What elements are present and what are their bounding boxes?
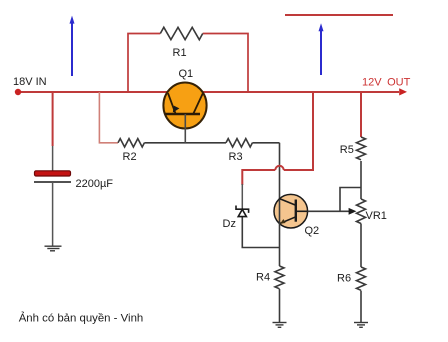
svg-text:R1: R1	[173, 47, 187, 59]
svg-text:Ảnh có bản quyền - Vinh: Ảnh có bản quyền - Vinh	[19, 312, 144, 325]
svg-text:Q1: Q1	[179, 68, 194, 80]
svg-text:Dz: Dz	[223, 218, 236, 230]
svg-text:VR1: VR1	[366, 210, 387, 222]
svg-text:18V IN: 18V IN	[13, 76, 47, 88]
svg-text:12V OUT: 12V OUT	[362, 77, 411, 89]
svg-text:R5: R5	[340, 144, 354, 156]
svg-text:R6: R6	[337, 273, 351, 285]
svg-text:R3: R3	[229, 151, 243, 163]
svg-text:R4: R4	[256, 272, 270, 284]
svg-text:2200µF: 2200µF	[76, 178, 114, 190]
svg-text:Q2: Q2	[305, 225, 320, 237]
svg-text:R2: R2	[123, 151, 137, 163]
